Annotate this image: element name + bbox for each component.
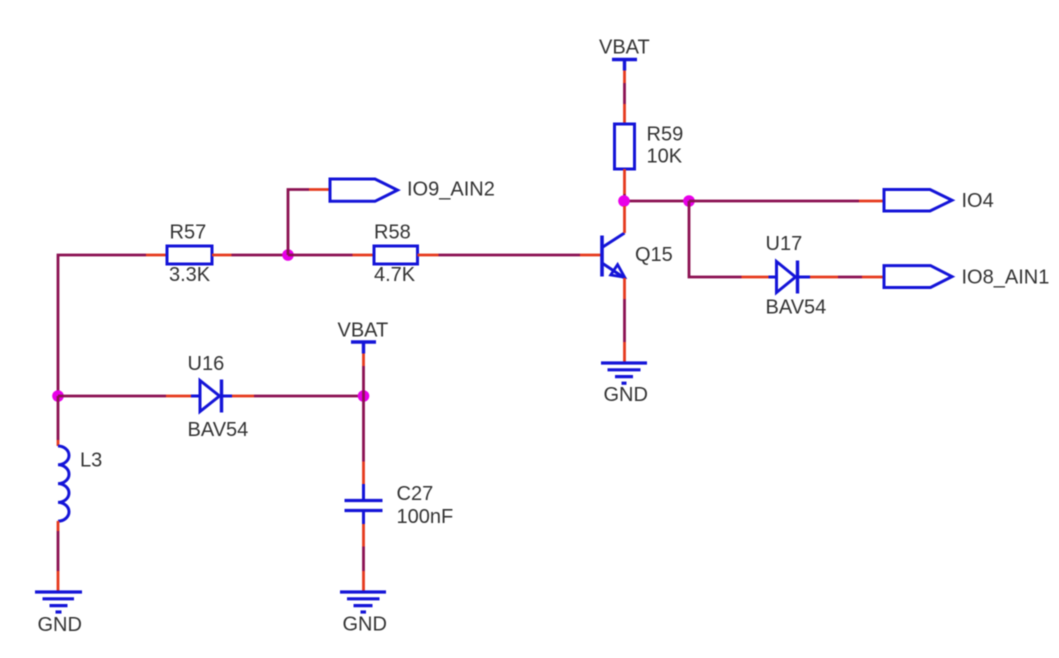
transistor Q15 (NPN) [580,206,673,299]
junction node collector/R59 [618,195,630,207]
ground GND (Q15 emitter) [601,342,648,406]
junction node IO4 branch [683,195,695,207]
svg-text:IO4: IO4 [962,190,994,212]
port flag IO8_AIN1 [862,266,1049,289]
svg-text:GND: GND [343,614,387,636]
wire junction down to L3 [57,396,60,440]
ground GND (L3) [35,571,82,636]
wire L3 to GND [57,531,60,571]
wire U17 to IO8_AIN1 [838,276,862,279]
diode U17 BAV54 [742,233,839,319]
port flag IO4 [859,190,994,213]
junction node bottom-left rail [52,390,64,402]
svg-text:IO8_AIN1: IO8_AIN1 [962,267,1050,289]
svg-text:U17: U17 [766,233,803,255]
resistor R58 4.7K [353,222,439,287]
capacitor C27 100nF [345,462,454,547]
svg-text:Q15: Q15 [635,244,673,266]
inductor L3 [58,440,102,531]
svg-text:10K: 10K [647,146,683,168]
power flag VBAT (top, net VBAT) [599,37,650,84]
wire left rail start [58,255,146,396]
svg-text:4.7K: 4.7K [374,264,416,286]
svg-text:BAV54: BAV54 [766,297,827,319]
wire junction to U16 [58,395,166,398]
svg-text:R58: R58 [374,222,411,244]
svg-text:U16: U16 [188,353,225,375]
svg-text:L3: L3 [80,450,102,472]
svg-text:100nF: 100nF [397,506,454,528]
svg-text:BAV54: BAV54 [188,419,249,441]
wire junction to R58 [288,254,353,257]
svg-text:VBAT: VBAT [338,320,389,342]
wire R57 to junction [232,254,289,257]
resistor R57 3.3K [146,222,232,287]
svg-text:IO9_AIN2: IO9_AIN2 [407,179,495,201]
wire VBAT to R59 [623,83,626,104]
wire C27 to GND [362,547,365,572]
svg-text:GND: GND [38,614,82,636]
wire node down to U17 row [689,201,742,277]
ground GND (C27) [340,571,387,636]
wire VBAT to junction [362,366,365,396]
svg-text:R57: R57 [170,222,207,244]
port flag IO9_AIN2 [309,179,495,202]
wire junction to C27 [362,396,365,462]
svg-text:VBAT: VBAT [599,37,650,59]
junction node IO9 branch [282,249,294,261]
wire junction up to IO9_AIN2 [288,190,309,256]
svg-text:R59: R59 [647,124,684,146]
svg-text:GND: GND [604,384,648,406]
wire collector node rail [624,194,689,201]
wire R58 to Q15 base [439,254,581,257]
svg-text:3.3K: 3.3K [169,264,211,286]
wire Q15 emitter to GND [623,299,626,342]
junction node VBAT/C27 [358,390,370,402]
svg-text:C27: C27 [397,483,434,505]
diode U16 BAV54 [166,353,254,441]
power flag VBAT (lower, net VBAT) [338,320,389,367]
wire node to IO4 [689,200,859,203]
wire U16 to VBAT node [254,395,364,398]
resistor R59 10K [615,104,684,194]
